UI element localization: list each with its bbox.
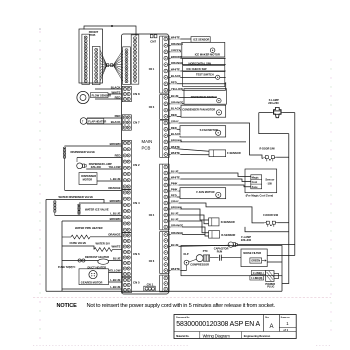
duct heater [88, 259, 109, 270]
f-fan motor [180, 126, 226, 137]
svg-text:PINK: PINK [171, 188, 178, 192]
svg-text:RED: RED [115, 95, 121, 99]
svg-text:ICE SENSOR: ICE SENSOR [193, 38, 209, 42]
svg-text:WHITE: WHITE [171, 176, 180, 180]
svg-text:BROWN: BROWN [171, 206, 182, 210]
connector CN2 pins [122, 140, 131, 189]
page margin dots [33, 28, 332, 345]
svg-text:RED: RED [115, 154, 121, 158]
svg-text:RED: RED [171, 126, 177, 130]
svg-text:YELLOW: YELLOW [109, 269, 121, 273]
wire black [169, 109, 181, 111]
label white [171, 68, 181, 71]
svg-text:NOISE FILTER: NOISE FILTER [243, 251, 261, 255]
wire orange [65, 190, 123, 192]
svg-text:ORANGE: ORANGE [108, 186, 120, 190]
label black [171, 133, 181, 136]
svg-text:RED: RED [115, 114, 121, 118]
title block [174, 315, 296, 339]
noise filter [241, 249, 267, 267]
svg-text:Document No: Document No [176, 316, 190, 319]
svg-text:F-FAN MOTOR: F-FAN MOTOR [200, 128, 218, 132]
line L terminal [251, 270, 265, 274]
svg-text:F-SENSOR: F-SENSOR [227, 151, 241, 155]
harness wires bowtie [100, 50, 123, 82]
title block sheet [281, 317, 291, 332]
svg-text:R-DOOR S/W: R-DOOR S/W [260, 148, 276, 151]
svg-text:DISPENSER VALVE: DISPENSER VALVE [71, 150, 96, 154]
svg-text:220+230: 220+230 [241, 238, 252, 242]
wire compressor box to bottom bus [281, 276, 283, 292]
svg-text:GRAY: GRAY [171, 200, 179, 204]
compressor motor [189, 255, 209, 267]
wire yellow [86, 168, 122, 170]
wire white to sensor [169, 179, 251, 182]
svg-text:WHITE: WHITE [171, 267, 180, 271]
label blue [171, 243, 179, 246]
junction dot [111, 25, 113, 27]
run capacitor [210, 247, 241, 260]
wire brown dispenser valve [65, 145, 123, 147]
wire brown [169, 141, 246, 143]
svg-text:FUSE 72(M)°C: FUSE 72(M)°C [58, 265, 76, 269]
svg-text:GEARED MOTOR: GEARED MOTOR [81, 280, 103, 284]
svg-text:L.BLUE: L.BLUE [110, 177, 120, 181]
svg-text:DEFROST HEATER: DEFROST HEATER [85, 255, 109, 259]
wire bus bottom [282, 281, 289, 284]
svg-text:BLUE: BLUE [171, 218, 179, 222]
label white [171, 145, 181, 148]
svg-text:CN 2: CN 2 [133, 163, 140, 167]
front pcb connector box [79, 29, 103, 83]
label red [171, 126, 177, 129]
title block material row [176, 333, 270, 338]
svg-text:CN 5: CN 5 [133, 281, 140, 285]
svg-text:-105: -105 [267, 182, 273, 186]
svg-text:YELLOW: YELLOW [171, 87, 183, 91]
flow sensor wires [95, 89, 122, 99]
wire yellow [109, 272, 123, 274]
svg-text:PLUG: PLUG [267, 285, 274, 289]
main pcb label [142, 139, 153, 150]
svg-text:BLACK: BLACK [171, 107, 181, 111]
svg-text:WHITE: WHITE [111, 245, 120, 249]
left cluster frame [61, 221, 63, 291]
svg-text:L.BLUE: L.BLUE [110, 278, 120, 282]
wire f-door to bus [277, 222, 289, 224]
svg-text:RED: RED [171, 113, 177, 117]
svg-text:F-DOOR S/W: F-DOOR S/W [263, 214, 279, 217]
wire light blue [109, 281, 123, 283]
label brown [171, 139, 181, 142]
wire orange [169, 234, 205, 236]
svg-text:CN 1: CN 1 [147, 282, 154, 286]
test switch [196, 73, 220, 80]
svg-text:PINK: PINK [171, 182, 178, 186]
svg-text:220+230: 220+230 [91, 165, 102, 169]
wire blue to d-sensor [169, 215, 208, 224]
label orange [171, 224, 182, 227]
ice maker motor [182, 42, 225, 57]
wire noise filter out [267, 261, 282, 263]
svg-text:DISPENSER: DISPENSER [81, 174, 96, 178]
left bus wire [45, 200, 47, 292]
svg-text:CN 1: CN 1 [149, 68, 155, 71]
connector CN5 pins [122, 277, 131, 292]
svg-text:CN 8: CN 8 [133, 92, 140, 96]
svg-text:CN 4: CN 4 [133, 201, 140, 205]
fuse 72c [58, 259, 85, 269]
ice sensor [191, 37, 210, 43]
svg-text:BROWN: BROWN [171, 139, 182, 143]
svg-text:CN 3: CN 3 [149, 106, 155, 109]
label white [171, 36, 181, 39]
svg-text:R-SENSOR: R-SENSOR [221, 233, 235, 237]
compressor unit box [181, 246, 282, 276]
svg-text:CUBE VALVE: CUBE VALVE [70, 241, 87, 245]
svg-text:WHITE: WHITE [111, 90, 120, 94]
dispenser lamp [77, 158, 112, 170]
label gray [171, 200, 179, 203]
switch box [183, 58, 225, 86]
wire blue to r-sensor [169, 221, 208, 233]
wire red [169, 83, 225, 85]
wire white to compressor [169, 270, 186, 272]
svg-text:ORANGE: ORANGE [171, 100, 183, 104]
water pipe heater resistor [62, 235, 122, 239]
svg-text:BLUE: BLUE [171, 212, 179, 216]
r-lamp [228, 235, 251, 247]
label blue [171, 170, 179, 173]
f-door s/w [263, 214, 279, 227]
flap heater wires [87, 118, 122, 124]
svg-text:WHITE: WHITE [171, 151, 180, 155]
label brown [171, 55, 181, 58]
wire blue [169, 97, 216, 99]
svg-text:ICE CHECK S/W: ICE CHECK S/W [187, 67, 208, 71]
label white [171, 151, 181, 154]
svg-text:Engineering Revision: Engineering Revision [244, 334, 271, 338]
wire jog [94, 200, 104, 204]
svg-text:PCB: PCB [90, 33, 96, 37]
svg-text:RED: RED [171, 194, 177, 198]
lamp circuit wires [259, 113, 295, 134]
svg-text:ORANGE: ORANGE [171, 42, 183, 46]
svg-text:ORANGE: ORANGE [171, 231, 183, 235]
wire light blue [55, 215, 123, 217]
front pcb label [89, 30, 99, 37]
wire orange ice check [169, 64, 225, 66]
r-sensor [209, 231, 236, 238]
svg-text:WHITE: WHITE [171, 145, 180, 149]
label orange [171, 62, 182, 65]
wire brown water ice valve [79, 202, 122, 204]
f-fan motor 2 [180, 188, 226, 199]
svg-text:WATER DISPENSER VALVE: WATER DISPENSER VALVE [59, 195, 94, 199]
wire blue to lamp [169, 245, 230, 246]
svg-text:CONDENSER FAN MOTOR: CONDENSER FAN MOTOR [182, 108, 215, 112]
svg-text:PTC: PTC [203, 250, 208, 253]
label black [171, 107, 181, 110]
wire noise filter to bus [267, 255, 295, 257]
dispenser valve [63, 147, 95, 190]
connector AC-in 3pin [144, 282, 155, 291]
svg-text:Magic: Magic [252, 176, 260, 179]
label orange [171, 42, 182, 45]
svg-text:L.BLUE: L.BLUE [110, 285, 120, 289]
svg-text:BLACK: BLACK [171, 74, 181, 78]
svg-text:YELLOW: YELLOW [109, 165, 121, 169]
svg-text:CN 4: CN 4 [149, 214, 155, 217]
svg-text:MOTOR: MOTOR [83, 178, 93, 182]
connector CN1 pins [160, 36, 169, 93]
svg-text:(For Magic Cool Zone): (For Magic Cool Zone) [246, 194, 274, 198]
svg-text:BLACK: BLACK [111, 120, 121, 124]
r-door s/w [260, 148, 277, 162]
svg-text:220+230: 220+230 [268, 101, 279, 105]
svg-text:PCB: PCB [142, 145, 151, 150]
label pink [171, 188, 179, 191]
label yellow [171, 87, 182, 90]
svg-text:GREEN: GREEN [171, 48, 181, 52]
wire front-pcb to main-pcb top loop [84, 26, 136, 36]
wire lamp to bus [238, 244, 294, 246]
flap heater [80, 118, 106, 125]
svg-text:f: f [82, 120, 83, 124]
magic cool zone sensor [245, 169, 277, 198]
label gray [171, 120, 179, 123]
right bus wire outer [294, 113, 296, 256]
svg-text:Cool: Cool [252, 181, 258, 184]
dispenser switch [184, 89, 226, 105]
water ice valve [78, 204, 109, 215]
wire blue defrost [62, 260, 122, 262]
f-sensor [209, 150, 241, 157]
svg-text:MAIN: MAIN [142, 139, 153, 144]
label green [171, 49, 181, 52]
label orange [171, 231, 182, 234]
svg-text:RUN: RUN [217, 250, 223, 253]
wire red [169, 128, 180, 130]
svg-text:BROWN: BROWN [110, 199, 121, 203]
svg-text:WHITE: WHITE [171, 36, 180, 40]
wire f-door bottom [245, 227, 289, 232]
flow sensor [77, 91, 111, 103]
svg-text:NOTICE: NOTICE [57, 303, 78, 309]
wire black [169, 135, 180, 137]
wire green [169, 51, 181, 53]
wire brown to d-sensor [169, 209, 208, 220]
wire pink to sensor [169, 185, 251, 187]
wire pink [169, 190, 180, 192]
label red [171, 194, 177, 197]
svg-text:CN 6: CN 6 [133, 252, 140, 256]
connector CN9 pins [160, 120, 169, 157]
wire red [169, 196, 180, 198]
svg-text:Zone: Zone [252, 186, 259, 189]
label blue [171, 218, 179, 221]
wire gray to r-door switch [169, 123, 263, 158]
connector CN8 pins [122, 86, 131, 101]
svg-text:COMPRESSOR: COMPRESSOR [190, 262, 209, 266]
svg-text:of 1: of 1 [283, 328, 288, 332]
olp [183, 253, 189, 271]
main pcb board outline [122, 34, 169, 294]
wire r-door to bus [276, 156, 289, 158]
power plug [265, 271, 278, 289]
wire red [77, 157, 122, 159]
water s/v [94, 242, 122, 252]
title block rev [265, 317, 273, 330]
svg-text:ORANGE: ORANGE [108, 233, 120, 237]
designator CN7 blocks [150, 35, 157, 44]
water dispenser valve [54, 195, 94, 215]
svg-text:BLACK: BLACK [171, 132, 181, 136]
svg-text:WATER ICE VALVE: WATER ICE VALVE [85, 208, 109, 212]
svg-text:ORANGE: ORANGE [171, 61, 183, 65]
label black [171, 74, 181, 77]
svg-text:58300000120308 ASP EN A: 58300000120308 ASP EN A [176, 321, 260, 328]
connector CN6 pins [122, 233, 131, 277]
bottom supply bus [46, 290, 282, 292]
wire black [169, 76, 215, 78]
connector CN3 pins [160, 95, 169, 120]
svg-text:BROWN: BROWN [110, 217, 121, 221]
svg-text:WATER S/V: WATER S/V [96, 242, 111, 246]
wire white 2 [169, 154, 209, 156]
wire plug to bus [279, 276, 289, 281]
label orange [171, 101, 182, 104]
connector CN5b pins [160, 275, 169, 292]
svg-text:BLUE: BLUE [171, 170, 179, 174]
wire light blue [97, 180, 122, 182]
connector CN7 pins [122, 115, 131, 130]
svg-text:BROWN: BROWN [171, 55, 182, 59]
right bus wire inner [288, 134, 290, 281]
svg-text:BLACK: BLACK [111, 85, 121, 89]
wire cube valve [62, 246, 94, 250]
svg-text:WATER PIPE HEATER: WATER PIPE HEATER [75, 226, 103, 230]
wire white [169, 148, 209, 151]
svg-text:A: A [270, 324, 274, 330]
svg-text:CN 7: CN 7 [133, 121, 140, 125]
svg-text:F-FAN MOTOR: F-FAN MOTOR [196, 190, 214, 194]
ptc starter [203, 250, 210, 261]
wire brown horizontal sw [169, 57, 225, 59]
svg-text:CN7: CN7 [150, 39, 156, 43]
connector front-pcb column B [92, 46, 100, 84]
svg-text:ORANGE: ORANGE [171, 224, 183, 228]
connector door column D [131, 35, 139, 84]
svg-text:Drawn no.: Drawn no. [281, 317, 291, 319]
label white [171, 267, 181, 270]
label red [171, 81, 177, 84]
connector front-pcb column A [82, 34, 90, 84]
dispenser motor [79, 173, 97, 185]
svg-text:GREEN: GREEN [251, 260, 260, 263]
connector CN4b pins [160, 164, 169, 230]
label pink [171, 182, 179, 185]
wire white test switch [169, 70, 225, 72]
wire yellow [169, 89, 225, 91]
title block document number [176, 316, 260, 328]
wire orange to r-sensor [169, 227, 208, 236]
wire water dispenser valve [46, 199, 94, 201]
svg-text:BROWN: BROWN [110, 142, 121, 146]
svg-text:CN 6: CN 6 [149, 260, 155, 263]
svg-text:L.BLUE: L.BLUE [110, 212, 120, 216]
d-sensor [209, 218, 235, 226]
svg-text:BLUE: BLUE [113, 257, 121, 261]
svg-text:ICE MAKER MOTOR: ICE MAKER MOTOR [195, 52, 220, 56]
notice text [57, 303, 276, 309]
svg-text:1 LINE(N): 1 LINE(N) [251, 277, 262, 280]
svg-text:Not to reinsert the power supp: Not to reinsert the power supply cord wi… [87, 303, 276, 309]
wire white ice sensor [169, 38, 191, 40]
svg-text:1 LINE(L): 1 LINE(L) [253, 272, 264, 275]
label white [171, 176, 181, 179]
svg-text:D-SENSOR: D-SENSOR [221, 220, 235, 224]
wire light blue 2 [62, 288, 122, 290]
svg-text:BLUE: BLUE [171, 94, 179, 98]
line N terminal [250, 276, 264, 280]
svg-text:FLOW SENSOR: FLOW SENSOR [92, 93, 112, 97]
f-lamp [268, 98, 282, 118]
label red [171, 113, 177, 116]
wire gray to f-door switch [169, 203, 264, 223]
condenser fan motor [181, 105, 226, 117]
connector door column C [123, 47, 131, 85]
svg-text:TEST SWITCH: TEST SWITCH [196, 73, 214, 77]
wire red [169, 115, 181, 117]
svg-text:Material No.: Material No. [176, 335, 189, 338]
svg-text:WHITE: WHITE [171, 68, 180, 72]
svg-text:GRAY: GRAY [171, 120, 179, 124]
svg-text:DISPENSER SWITCH: DISPENSER SWITCH [191, 95, 217, 99]
label blue [171, 212, 179, 215]
geared motor [79, 269, 109, 285]
wire brown [62, 220, 122, 222]
svg-text:BLUE: BLUE [171, 243, 179, 247]
svg-text:FLAP HEATER: FLAP HEATER [88, 119, 106, 123]
connector CN6b pins [160, 232, 169, 274]
connector CN4 pins [122, 190, 131, 233]
svg-text:Wiring Diagram: Wiring Diagram [203, 333, 231, 338]
svg-text:RED: RED [171, 80, 177, 84]
wire orange [169, 44, 181, 46]
wire blue to sensor [169, 173, 251, 177]
svg-text:Sensor: Sensor [265, 178, 274, 182]
label brown [171, 206, 181, 209]
label blue [171, 94, 179, 97]
svg-text:OLP: OLP [183, 253, 188, 256]
wire orange [169, 103, 184, 105]
